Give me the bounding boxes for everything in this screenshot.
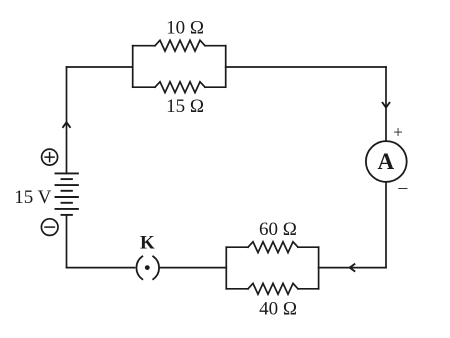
wire top horizontal right segment (226, 66, 386, 68)
resistor R3 60ohm zigzag (248, 242, 298, 253)
switch K contact dot (145, 265, 150, 270)
svg-text:A: A (377, 149, 394, 174)
node: bottom parallel box left edge (225, 247, 227, 289)
svg-text:K: K (140, 232, 155, 253)
current arrow left on bottom wire (350, 264, 356, 272)
wire right vertical upper (to ammeter) (385, 67, 387, 141)
svg-text:15 V: 15 V (14, 187, 51, 208)
svg-text:40 Ω: 40 Ω (259, 298, 297, 319)
battery B1 15V plates (56, 173, 78, 215)
wire box2 top branch leads (226, 246, 318, 248)
resistor R1 10ohm zigzag (155, 40, 205, 51)
wire right vertical lower (ammeter to bottom-right corner) (385, 182, 387, 268)
svg-text:10 Ω: 10 Ω (166, 18, 204, 39)
switch K left paren (136, 256, 142, 279)
switch K right paren (153, 256, 159, 279)
node: bottom parallel box right edge (318, 247, 320, 289)
node: top parallel box right edge (225, 46, 227, 87)
node: top parallel box left edge (132, 46, 134, 87)
resistor R2 15ohm zigzag (155, 82, 205, 93)
svg-text:15 Ω: 15 Ω (166, 96, 204, 117)
battery polarity circled minus (41, 219, 58, 236)
wire box1 top branch leads (133, 45, 226, 47)
wire bottom left segment (switch to corner) (67, 267, 135, 269)
wire top horizontal left segment (67, 66, 133, 68)
current arrow up on left wire (63, 122, 71, 128)
wire left vertical (battery to top-left corner) (66, 67, 68, 173)
battery polarity circled plus (42, 149, 58, 165)
wire left vertical lower (corner to battery bottom) (66, 215, 68, 268)
current arrow down on right wire (382, 102, 390, 108)
resistor R4 40ohm zigzag (248, 283, 298, 294)
wire bottom right segment (corner to box2) (319, 267, 386, 269)
ammeter U1 circle (366, 141, 407, 182)
wire box1 bottom branch leads (133, 86, 226, 88)
svg-text:+: + (393, 123, 403, 142)
svg-text:–: – (397, 177, 408, 197)
svg-text:60 Ω: 60 Ω (259, 219, 297, 240)
wire bottom middle segment (box2 to switch) (160, 267, 227, 269)
wire box2 bottom branch leads (226, 288, 318, 290)
